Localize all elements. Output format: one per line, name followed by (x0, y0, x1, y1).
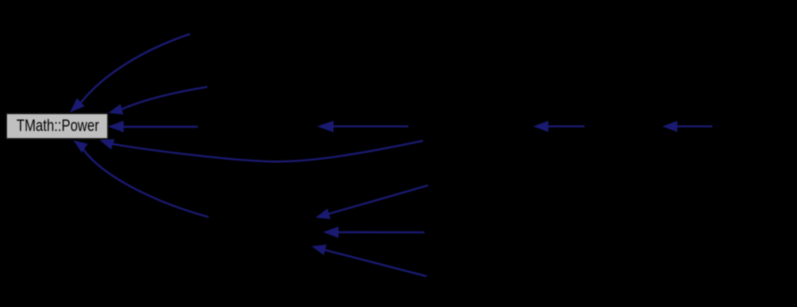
arrowhead into TMath::Power right (horizontal) (108, 121, 124, 133)
node TMath::Power box (6, 113, 108, 138)
wire: diagonal edge into bottom middle node from lower right (323, 250, 427, 277)
arrowhead into bottom middle node from upper right (316, 209, 331, 220)
wire: long swooping edge from right column node to TMath::Power bottom-right (113, 141, 424, 162)
arrowhead into TMath::Power bottom (lower arc) (73, 140, 88, 153)
svg-text:TMath::Power: TMath::Power (17, 117, 100, 135)
wire: diagonal edge into bottom middle node from upper right (327, 185, 428, 214)
arrowhead into TMath::Power top-right corner (108, 104, 123, 115)
wire: horizontal edge into right column node (545, 125, 585, 127)
wire: horizontal edge into far right node (674, 125, 712, 127)
wire: lower-left arc from bottom middle node to TMath::Power bottom (83, 149, 209, 217)
wire: horizontal edge into bottom middle node (336, 231, 424, 233)
arrowhead into bottom middle node from lower right (312, 245, 327, 256)
arrowhead into middle row3 node (horizontal) (317, 121, 333, 133)
arrowhead into TMath::Power top (70, 98, 85, 112)
wire: horizontal edge into middle node row3 (330, 125, 409, 127)
wire: edge diagonal from middle node row2 to TMath::Power top-right corner (121, 87, 207, 110)
arrowhead into TMath::Power bottom-right (swoop) (100, 139, 115, 150)
arrowhead into bottom middle node (horizontal) (323, 227, 339, 239)
wire: horizontal edge from middle node row3 to TMath::Power right (112, 126, 198, 128)
wire: edge arc from top middle node to TMath::Power top (81, 34, 190, 103)
arrowhead into far right node (horizontal) (662, 121, 677, 132)
arrowhead into right column node (horizontal) (533, 121, 548, 132)
